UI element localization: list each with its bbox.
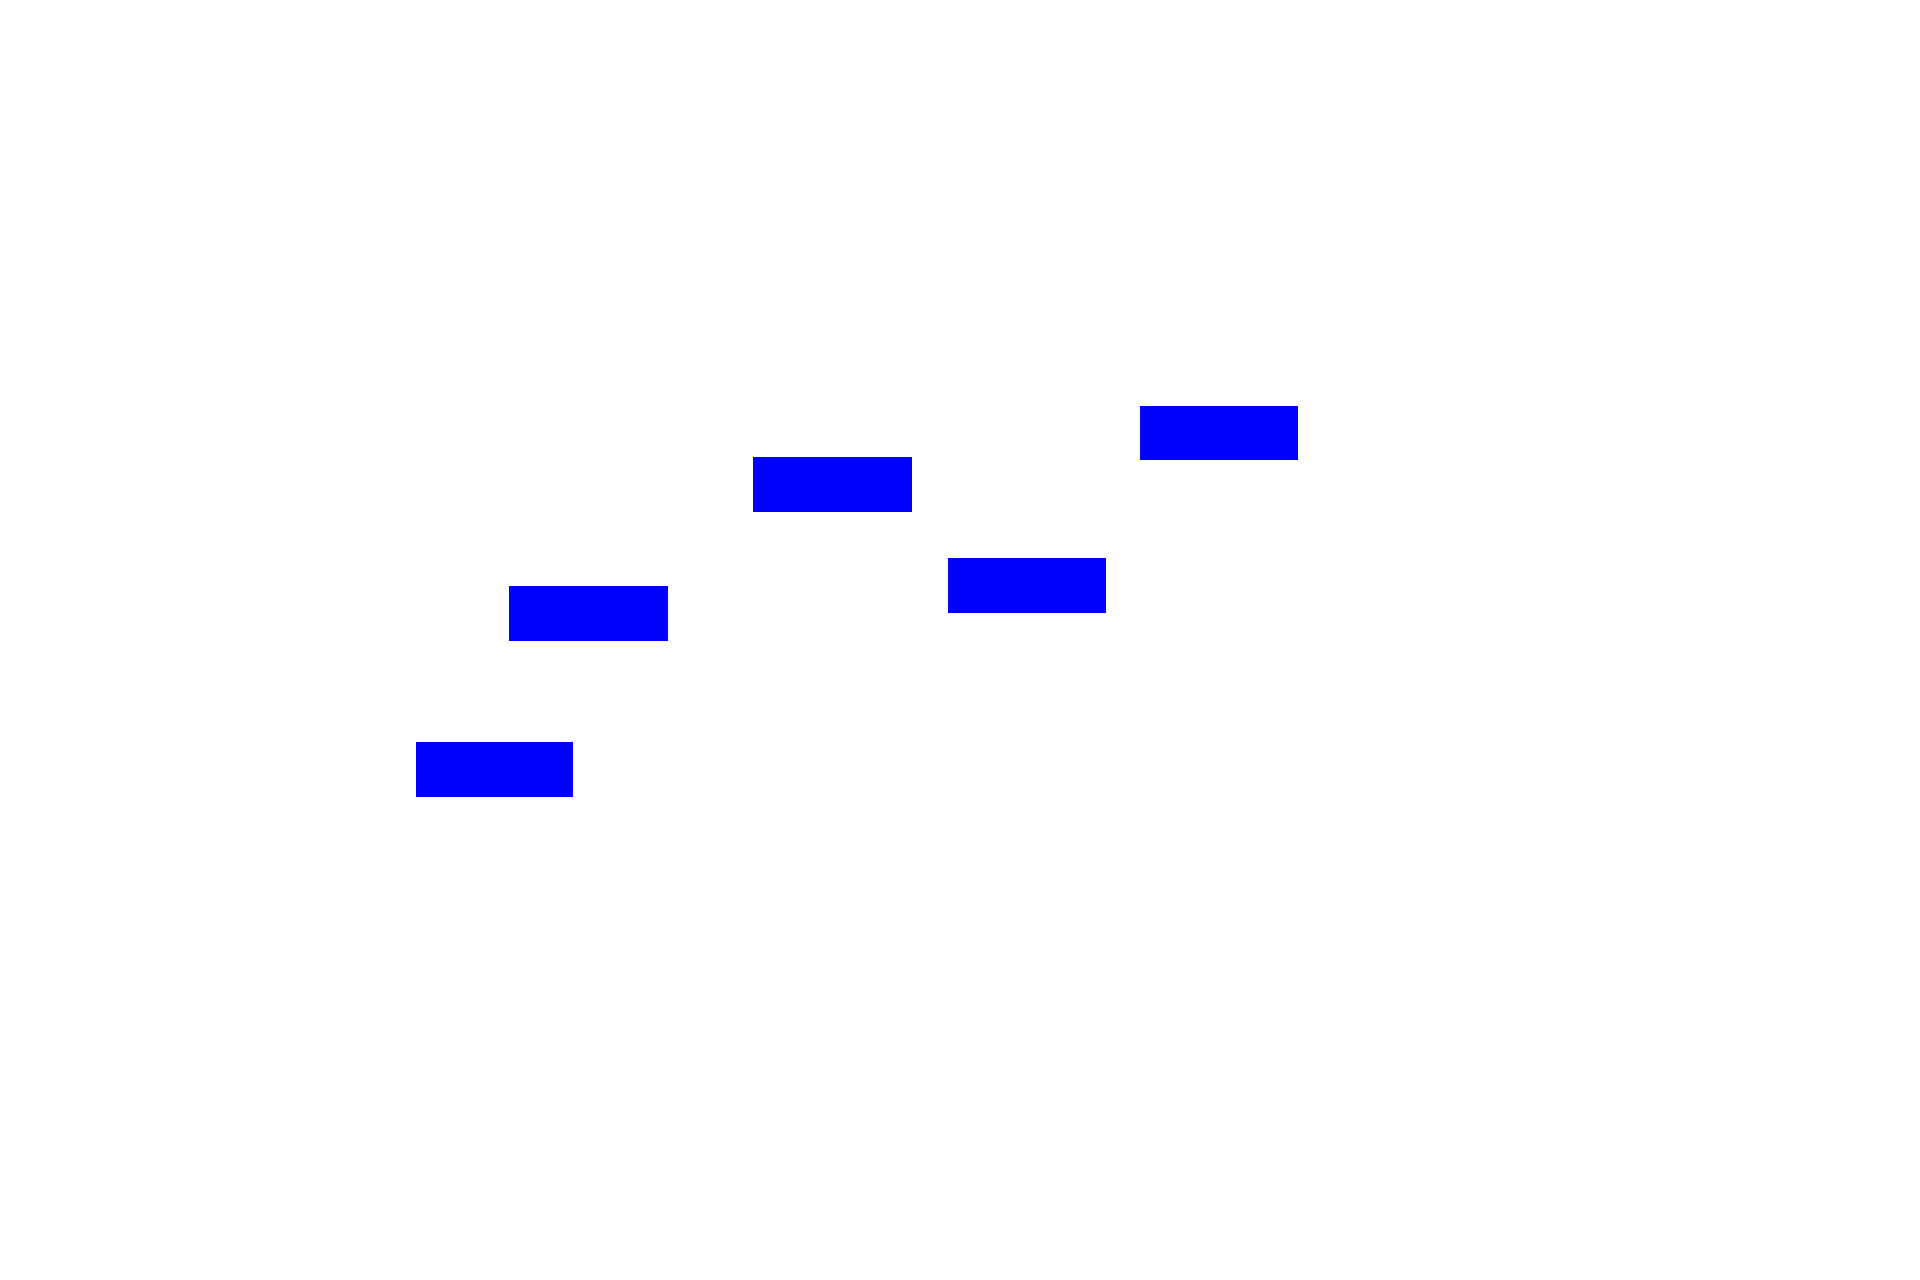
rectangle 1 (top right): [1140, 406, 1298, 460]
rectangle 2 (upper middle): [753, 457, 912, 512]
rectangle 5 (lower left): [416, 742, 573, 797]
rectangle 3 (middle right): [948, 558, 1106, 613]
rectangle 4 (middle left): [509, 586, 668, 641]
